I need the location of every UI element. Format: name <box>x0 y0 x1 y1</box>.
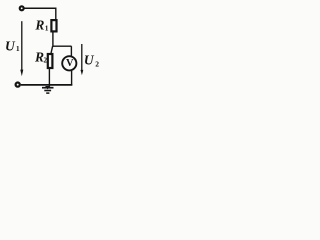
svg-text:U: U <box>84 52 95 67</box>
ground bar 3 <box>46 92 49 94</box>
ground bar 1 <box>42 87 54 89</box>
svg-text:2: 2 <box>95 60 99 69</box>
svg-text:1: 1 <box>16 44 20 53</box>
wire node A to voltmeter (horizontal) <box>53 45 72 47</box>
svg-text:U: U <box>5 39 16 54</box>
svg-text:R: R <box>34 18 44 33</box>
wire top right corner down to R1 <box>55 8 57 20</box>
svg-text:2: 2 <box>44 57 48 65</box>
terminal node input + (top-left) <box>20 6 24 10</box>
terminal node input - (bottom-left) <box>16 83 20 87</box>
ground symbol triangle <box>45 86 50 89</box>
svg-text:V: V <box>66 58 74 69</box>
arrow U2 arrowhead <box>81 70 84 75</box>
voltmeter V1 circle <box>62 56 76 70</box>
arrow U2 reference direction (line) <box>81 44 83 71</box>
arrow U1 arrowhead <box>20 70 23 77</box>
wire voltmeter bottom down <box>71 71 73 85</box>
wire down to voltmeter top <box>70 46 72 56</box>
arrow U1 reference direction (line) <box>21 21 23 70</box>
svg-text:R: R <box>34 50 44 65</box>
wire node A to R2 top <box>51 46 53 53</box>
background paper <box>0 0 105 96</box>
wire R1 bottom to node A <box>52 32 54 46</box>
wire top horizontal <box>24 7 56 9</box>
resistor R2 <box>48 54 53 68</box>
wire R2 bottom to ground <box>48 69 50 87</box>
resistor R1 <box>51 20 56 31</box>
ground bar 2 <box>44 90 51 92</box>
svg-text:1: 1 <box>45 23 49 32</box>
wire bottom horizontal <box>21 84 73 86</box>
